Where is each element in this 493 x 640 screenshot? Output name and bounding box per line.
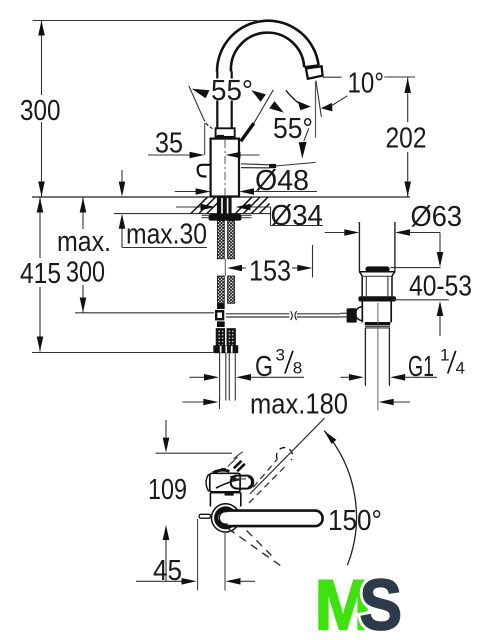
svg-text:4: 4 <box>456 359 465 378</box>
svg-text:300: 300 <box>20 95 61 127</box>
svg-text:55°: 55° <box>211 75 253 107</box>
svg-text:max.: max. <box>57 226 111 258</box>
svg-text:G1: G1 <box>408 351 434 383</box>
svg-text:150°: 150° <box>328 505 382 537</box>
svg-text:Ø34: Ø34 <box>271 200 324 232</box>
svg-text:Ø48: Ø48 <box>255 165 309 197</box>
svg-text:40-53: 40-53 <box>409 271 472 303</box>
svg-text:8: 8 <box>293 359 302 378</box>
svg-text:3: 3 <box>276 346 285 365</box>
svg-text:415: 415 <box>20 258 61 290</box>
svg-text:10°: 10° <box>348 68 385 100</box>
svg-text:153: 153 <box>249 256 291 288</box>
svg-text:max.180: max.180 <box>250 389 348 421</box>
svg-text:109: 109 <box>148 474 187 506</box>
svg-text:S: S <box>360 567 403 640</box>
svg-text:55°: 55° <box>273 113 313 145</box>
svg-text:45: 45 <box>153 555 182 587</box>
svg-text:300: 300 <box>66 257 105 289</box>
svg-text:G: G <box>255 351 273 383</box>
svg-text:1: 1 <box>440 346 449 365</box>
svg-text:202: 202 <box>386 123 427 155</box>
svg-text:max.30: max.30 <box>126 218 207 250</box>
svg-text:Ø63: Ø63 <box>411 201 463 233</box>
